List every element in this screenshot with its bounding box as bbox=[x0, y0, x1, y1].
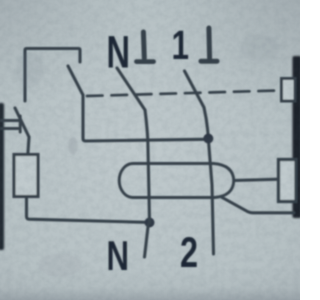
N terminal stub (bottom) bbox=[145, 225, 149, 257]
left photo edge dark bar bbox=[0, 103, 4, 250]
pole N: conductor through CT bbox=[145, 110, 150, 223]
junction dot on N conductor bbox=[145, 218, 155, 228]
test button contact blade bbox=[15, 108, 29, 137]
resistor R (test) bbox=[14, 155, 38, 197]
right photo edge dark bar bbox=[293, 56, 302, 218]
wire: button to resistor bbox=[28, 137, 29, 155]
pole N: top terminal stem bbox=[141, 32, 147, 58]
switch contact in test tap bbox=[68, 66, 83, 95]
mechanical linkage (dashed) bbox=[87, 91, 278, 97]
pole N: switch blade bbox=[117, 68, 145, 110]
wire: resistor to N junction bbox=[27, 197, 147, 223]
CT secondary wire (top) to trip coil bbox=[234, 179, 279, 180]
test/trip linkage box (upper right square) bbox=[282, 79, 296, 102]
pole N: terminal crossbar bbox=[137, 59, 154, 64]
test button actuator bbox=[1, 116, 20, 132]
trip coil (right square) bbox=[279, 160, 297, 202]
CT toroid (stadium) bbox=[119, 164, 234, 198]
pole 1/2: switch blade bbox=[185, 71, 205, 108]
wire: test bracket (top-left) bbox=[25, 49, 80, 102]
pole 1/2: top terminal stem bbox=[206, 28, 212, 58]
pole 1/2: conductor through CT bbox=[204, 108, 214, 255]
CT secondary wire (bottom) bbox=[221, 197, 294, 213]
labels bbox=[107, 22, 199, 279]
junction dot on phase conductor bbox=[203, 134, 213, 144]
wire: test tap down and right to phase bbox=[83, 95, 205, 141]
pole 1/2: terminal crossbar bbox=[201, 59, 217, 64]
